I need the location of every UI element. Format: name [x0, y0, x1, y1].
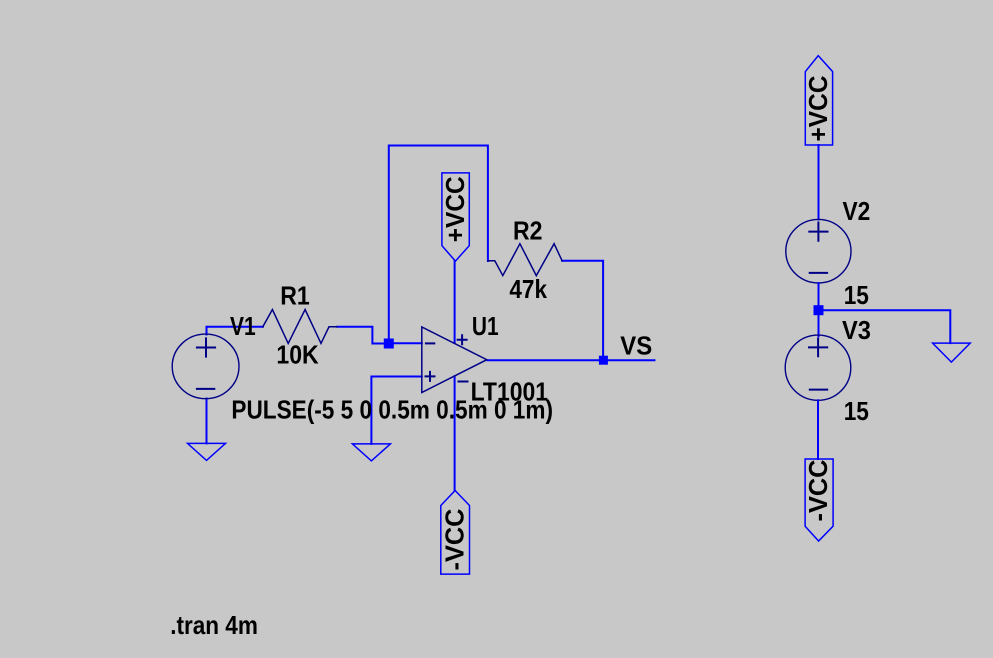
node junction at output VS	[599, 356, 608, 365]
wire R2 right to output	[562, 261, 603, 360]
wire op-amp bottom power pin to -VCC flag	[454, 376, 456, 490]
resistor R2	[488, 244, 562, 276]
flag -VCC (right, bottom)	[805, 459, 833, 541]
wire V1 top to R1	[207, 327, 263, 335]
svg-text:V3: V3	[842, 315, 871, 345]
ground right	[933, 343, 971, 362]
wire top feedback loop	[389, 146, 488, 344]
svg-text:10K: 10K	[276, 340, 318, 370]
svg-text:-VCC: -VCC	[439, 508, 469, 570]
flag +VCC (above op-amp)	[442, 173, 469, 261]
V2 minus mark	[810, 272, 827, 274]
wire V2 to V3	[818, 283, 820, 336]
svg-text:R1: R1	[280, 281, 310, 311]
ground under op-amp non-inverting input	[352, 444, 390, 461]
voltage source V2	[786, 219, 851, 283]
svg-text:LT1001: LT1001	[471, 376, 548, 406]
V1 minus mark	[197, 388, 214, 390]
wire node to right ground	[819, 310, 951, 343]
voltage source V3	[785, 335, 851, 400]
svg-text:-VCC: -VCC	[803, 459, 833, 521]
wire op-amp output to VS	[488, 359, 655, 361]
svg-text:V2: V2	[843, 196, 871, 226]
op-amp top power plus mark	[458, 335, 467, 344]
node junction between V2 and V3	[814, 305, 824, 315]
V1 plus mark	[197, 338, 215, 356]
wire V1 bottom to ground	[206, 399, 208, 444]
resistor R1	[263, 310, 337, 344]
op-amp inverting input mark	[426, 342, 434, 344]
svg-text:.tran 4m: .tran 4m	[170, 610, 258, 640]
V3 plus mark	[809, 339, 827, 357]
op-amp U1 triangle	[422, 327, 487, 393]
wire R1 right to node	[337, 327, 389, 344]
svg-text:+VCC: +VCC	[803, 75, 833, 141]
wire +VCC flag to op-amp top power pin	[454, 261, 456, 343]
flag -VCC (below op-amp)	[441, 491, 470, 575]
svg-text:47k: 47k	[509, 274, 547, 304]
flag +VCC (right, top)	[805, 56, 832, 145]
svg-text:VS: VS	[620, 330, 652, 360]
wire V3 to -VCC flag	[817, 400, 819, 459]
voltage source V1	[172, 334, 239, 399]
V3 minus mark	[810, 389, 827, 391]
ground under V1	[188, 443, 226, 460]
svg-text:+VCC: +VCC	[440, 176, 470, 242]
node junction at inverting input	[384, 339, 394, 349]
op-amp non-inverting input mark	[426, 372, 435, 381]
svg-text:U1: U1	[472, 311, 499, 341]
svg-text:15: 15	[844, 396, 869, 426]
svg-text:R2: R2	[513, 215, 543, 245]
wire op-amp non-inverting input to ground	[371, 377, 421, 444]
wire flag to V2	[818, 145, 820, 220]
svg-text:15: 15	[844, 280, 869, 310]
op-amp bottom power minus mark	[459, 381, 468, 383]
svg-text:V1: V1	[230, 311, 256, 341]
V2 plus mark	[809, 223, 827, 241]
wire node to op-amp inverting input	[389, 342, 422, 344]
